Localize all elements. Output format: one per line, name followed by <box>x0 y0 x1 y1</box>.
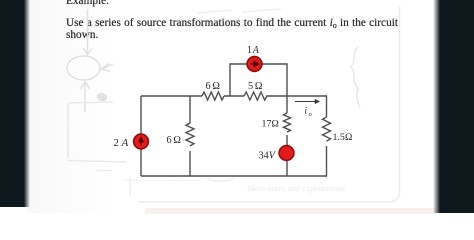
voltage source 34V <box>279 146 294 161</box>
svg-text:6Ω: 6Ω <box>167 135 182 146</box>
resistor 17ohm <box>284 113 291 132</box>
resistor 1.5ohm <box>323 117 331 141</box>
resistor 5ohm horizontal <box>244 92 267 100</box>
heading text "Example." (cut at top) <box>66 0 109 7</box>
wire bottom <box>141 175 327 177</box>
ghost gray blob <box>96 91 109 102</box>
ghost left arrow <box>102 64 114 72</box>
ghost down arrow <box>83 9 92 55</box>
ghost underline mark <box>125 179 200 181</box>
svg-text:6Ω: 6Ω <box>206 81 221 92</box>
wire 1A loop <box>230 64 287 96</box>
warm bottom strip <box>145 208 437 214</box>
ghost squiggle marks above paragraph <box>197 9 281 13</box>
left black bar <box>0 0 31 207</box>
ghost up arrow <box>81 82 90 113</box>
ghost ellipse (current source sketch) <box>67 56 100 80</box>
wire left <box>140 96 142 176</box>
svg-text:1.5Ω: 1.5Ω <box>333 132 353 143</box>
current source 1A <box>247 57 262 72</box>
current arrow io <box>295 100 319 103</box>
problem statement paragraph <box>66 18 398 40</box>
wire right <box>326 96 328 176</box>
resistor 6ohm horizontal <box>202 92 224 100</box>
ghost curly brace <box>351 47 360 108</box>
ghost content-box border (right + bottom, rounded corner) <box>138 6 400 202</box>
ghost small corner <box>95 171 130 197</box>
wire top <box>141 95 327 97</box>
subtle page shading <box>27 0 117 213</box>
wire 17ohm/34V branch <box>286 96 288 176</box>
current source 2A <box>134 134 149 149</box>
svg-text:i: i <box>305 105 308 115</box>
right black bar <box>433 0 474 213</box>
svg-text:17Ω: 17Ω <box>262 119 280 130</box>
svg-text:5Ω: 5Ω <box>248 81 263 92</box>
svg-text:More notes and explanations: More notes and explanations <box>247 183 345 193</box>
resistor 6ohm vertical <box>186 123 194 146</box>
ghost rectangle left <box>68 102 126 162</box>
wire middle branch verticals <box>189 96 191 176</box>
svg-text:1A: 1A <box>247 45 260 56</box>
ghost ellipse arc bottom <box>207 178 234 181</box>
svg-text:34V: 34V <box>259 151 277 162</box>
svg-text:o: o <box>309 111 313 118</box>
svg-text:2 A: 2 A <box>114 137 129 149</box>
